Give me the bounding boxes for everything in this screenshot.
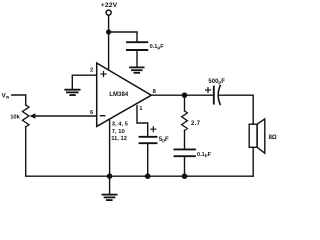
- capacitor C1 0.1uF bypass: [127, 42, 147, 50]
- wire ground pins to rail: [109, 119, 111, 176]
- wire bottom rail: [110, 175, 254, 177]
- op-amp U1 LM384: [97, 63, 152, 126]
- node C3 rail junction: [182, 173, 188, 179]
- wire C4 to speaker: [218, 95, 253, 124]
- ground at bottom rail: [109, 176, 111, 194]
- svg-text:6: 6: [90, 110, 94, 116]
- wire output pin 8: [151, 94, 214, 96]
- wire supply vertical to op-amp: [108, 15, 110, 70]
- wire Vin to pot top: [12, 95, 26, 105]
- ground under C1: [130, 67, 144, 72]
- svg-text:VIN: VIN: [2, 94, 10, 100]
- svg-text:+22V: +22V: [101, 2, 118, 9]
- svg-text:10k: 10k: [10, 115, 20, 121]
- supply terminal +22V: [106, 10, 111, 15]
- svg-text:3, 4, 5: 3, 4, 5: [112, 122, 129, 128]
- plus sign C2: [151, 127, 156, 132]
- wire R2 to C3: [184, 130, 186, 149]
- resistor R2 2.7: [182, 111, 188, 130]
- svg-text:LM384: LM384: [109, 92, 129, 98]
- svg-text:2: 2: [90, 68, 93, 74]
- svg-text:0.1μF: 0.1μF: [197, 152, 212, 158]
- capacitor C3 0.1uF: [175, 149, 195, 156]
- ground at pin 2: [65, 90, 79, 95]
- svg-text:5μF: 5μF: [159, 137, 169, 143]
- svg-text:2.7: 2.7: [191, 121, 201, 127]
- svg-text:11, 12: 11, 12: [111, 136, 127, 142]
- wire speaker to rail: [252, 147, 254, 176]
- node C2 rail junction: [145, 173, 151, 179]
- wire C3 to rail: [184, 156, 186, 176]
- wire pin2 ground stem: [71, 75, 73, 89]
- svg-text:7, 10: 7, 10: [112, 129, 125, 135]
- wire pin 6 wiper: [35, 115, 97, 117]
- wire pot bottom to rail: [26, 127, 110, 176]
- svg-text:8: 8: [153, 89, 157, 95]
- wire C2 to rail: [147, 143, 149, 176]
- capacitor C2 5uF: [140, 137, 157, 143]
- wire output junction down to R2: [184, 95, 186, 111]
- plus input sign: [101, 72, 106, 77]
- capacitor C4 500uF plates: [213, 87, 215, 104]
- node output junction: [182, 92, 188, 98]
- wire pin 2: [72, 74, 96, 76]
- wire pin 1 to bypass cap C2: [137, 106, 148, 136]
- capacitor C4 500uF plus sign: [206, 88, 211, 93]
- wire C1 to ground: [136, 50, 138, 67]
- potentiometer R1 10k: [22, 105, 29, 127]
- node supply junction: [106, 29, 111, 34]
- speaker LS1: [249, 124, 257, 147]
- minus input sign: [100, 115, 104, 117]
- svg-text:500μF: 500μF: [208, 79, 225, 85]
- node rail-ground junction: [107, 173, 113, 179]
- wiper arrowhead: [30, 113, 36, 119]
- wire junction to bypass cap: [109, 32, 137, 42]
- svg-text:1: 1: [139, 106, 143, 112]
- svg-text:8Ω: 8Ω: [269, 135, 277, 141]
- svg-text:0.1μF: 0.1μF: [150, 44, 165, 50]
